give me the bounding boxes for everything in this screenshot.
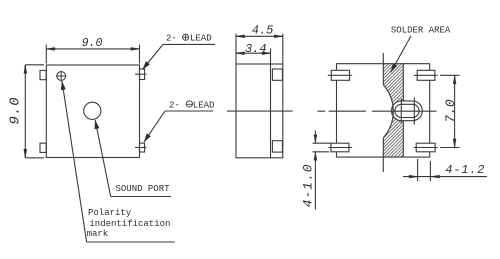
dim 3.4 extension line bbox=[270, 49, 272, 64]
svg-text:2-: 2- bbox=[166, 33, 177, 43]
side view inner edge bbox=[270, 64, 272, 158]
sound port circle bbox=[84, 102, 101, 119]
dim 4.5 arrows bbox=[236, 35, 245, 37]
svg-text:4-1.2: 4-1.2 bbox=[445, 163, 485, 177]
dim 7.0 line bbox=[454, 75, 456, 147]
dim 7.0 extension lines bbox=[440, 75, 460, 147]
svg-text:2-: 2- bbox=[169, 101, 180, 111]
dim 4-1.0 line bottom bbox=[314, 152, 316, 209]
dim 4.5 line bbox=[236, 35, 283, 37]
dim 9.0 top line bbox=[46, 48, 139, 50]
hatch bite arc bbox=[383, 85, 393, 138]
sound port leader line bbox=[95, 120, 111, 196]
oval recess outer bbox=[392, 101, 423, 121]
dim 9.0 left arrows bbox=[24, 65, 26, 74]
polarity mark cross bbox=[56, 71, 67, 82]
side view centerline bbox=[227, 110, 293, 112]
bottom view pad bottom-left bbox=[331, 143, 349, 152]
solder area leader bbox=[391, 36, 411, 72]
top view left tab top bbox=[40, 70, 46, 79]
svg-text:SOLDER AREA: SOLDER AREA bbox=[391, 26, 451, 36]
bottom view vertical centerline bbox=[382, 53, 384, 172]
oval tick right bbox=[413, 98, 415, 125]
dim 4-1.0 extension lines bbox=[313, 143, 331, 152]
bottom view horizontal centerline bbox=[317, 110, 436, 112]
top view right pad top bbox=[140, 69, 145, 80]
svg-text:LEAD: LEAD bbox=[190, 33, 212, 43]
polarity mark circle bbox=[57, 72, 66, 81]
top view body bbox=[46, 65, 139, 158]
leader 2-plus-lead underline bbox=[163, 43, 215, 45]
oval tick left bbox=[400, 99, 402, 124]
svg-text:4-1.0: 4-1.0 bbox=[301, 163, 316, 207]
top view right pad bottom bbox=[140, 143, 145, 152]
side view pad top bbox=[272, 69, 282, 80]
solder hatch band bbox=[383, 64, 403, 157]
svg-text:7.0: 7.0 bbox=[443, 99, 458, 123]
top view left tab bottom bbox=[40, 143, 46, 152]
dim 9.0 left line bbox=[24, 65, 26, 158]
svg-text:LEAD: LEAD bbox=[193, 101, 215, 111]
svg-text:4.5: 4.5 bbox=[252, 24, 274, 38]
bottom view pad bottom-right bbox=[416, 143, 435, 152]
svg-text:9.0: 9.0 bbox=[8, 96, 24, 124]
bottom view body bbox=[337, 64, 430, 157]
plus lead symbol bbox=[182, 34, 188, 40]
leader 2-minus-lead underline bbox=[165, 110, 213, 112]
minus lead symbol bbox=[186, 101, 192, 107]
sound port leader underline bbox=[111, 196, 171, 198]
bottom view pad top-right bbox=[417, 70, 435, 80]
dim 4.5 extension lines bbox=[236, 34, 283, 64]
side view body bbox=[236, 64, 283, 158]
svg-text:indentification: indentification bbox=[89, 219, 170, 229]
hatch band right edge bbox=[402, 64, 404, 157]
svg-text:9.0: 9.0 bbox=[82, 37, 103, 50]
dim 9.0 top arrows bbox=[47, 48, 57, 50]
top view right pad bottom centerline bbox=[135, 147, 147, 149]
dim 3.4 arrows bbox=[236, 52, 245, 54]
dim 9.0 left ticks bbox=[25, 65, 44, 158]
svg-text:Polarity: Polarity bbox=[88, 208, 132, 218]
leader 2-plus-lead line bbox=[143, 44, 164, 69]
svg-text:3.4: 3.4 bbox=[245, 42, 267, 56]
polarity leader underline bbox=[87, 241, 175, 243]
dim 7.0 arrows bbox=[454, 76, 456, 86]
dim 4-1.2 extension lines bbox=[418, 159, 431, 181]
svg-text:mark: mark bbox=[87, 229, 109, 239]
side view pad bottom bbox=[272, 141, 282, 152]
dim 9.0 top extension lines bbox=[46, 45, 139, 64]
dim 3.4 line bbox=[236, 52, 271, 54]
dim 4-1.2 arrows bbox=[409, 176, 417, 178]
dim 4-1.0 arrow top bbox=[314, 131, 316, 144]
bottom view pad top-left bbox=[331, 70, 349, 80]
dim 4-1.2 line bbox=[403, 176, 487, 178]
polarity leader line bbox=[62, 81, 87, 242]
leader 2-minus-lead line bbox=[144, 111, 165, 142]
top view right pad top centerline bbox=[135, 73, 147, 75]
svg-text:SOUND PORT: SOUND PORT bbox=[116, 184, 171, 194]
oval hole inner bbox=[395, 104, 419, 117]
